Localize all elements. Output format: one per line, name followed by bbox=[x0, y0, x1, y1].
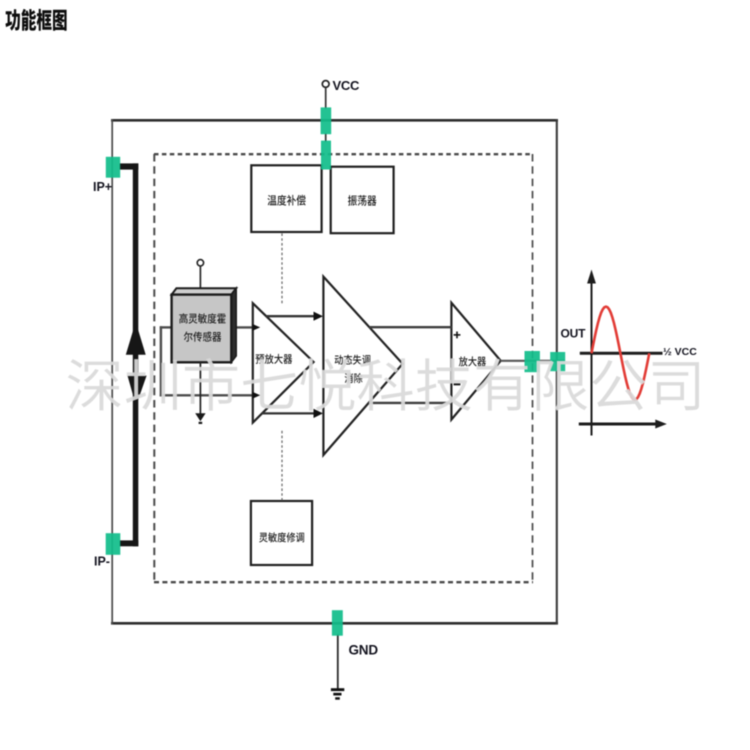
wire GND vertical bbox=[337, 634, 339, 689]
pin marker IP- bbox=[106, 533, 121, 555]
label: hall sensor line 2 bbox=[184, 332, 222, 342]
svg-text:½ VCC: ½ VCC bbox=[663, 346, 697, 358]
current direction arrow down bbox=[128, 376, 147, 406]
pin marker VCC lower bbox=[321, 141, 331, 170]
wire offset-cancel to amplifier plus bbox=[369, 326, 452, 328]
svg-text:GND: GND bbox=[349, 643, 379, 658]
current direction arrow up bbox=[126, 322, 146, 355]
block: temperature compensation bbox=[251, 165, 321, 232]
label: oscillator bbox=[348, 195, 377, 206]
wire hall to pre-amp lower, arrowhead bbox=[252, 392, 260, 399]
op-amp A2: dynamic offset cancellation triangle bbox=[323, 277, 402, 455]
thick current path top segment from IP+ bbox=[120, 163, 139, 169]
wire hall bottom stub bbox=[199, 362, 201, 414]
svg-text:VCC: VCC bbox=[333, 78, 360, 93]
wire VCC terminal to pin marker bbox=[325, 88, 327, 109]
pin marker GND bbox=[332, 610, 343, 636]
label: pre-amplifier bbox=[256, 354, 293, 364]
label: temperature compensation bbox=[268, 195, 306, 206]
dashed trim line from temperature compensation bbox=[281, 233, 283, 305]
dashed chip-core boundary left edge bbox=[153, 154, 155, 582]
label: hall sensor line 1 bbox=[179, 313, 225, 323]
waveform vertical axis with arrow bbox=[591, 281, 593, 436]
wire hall bias left vertical bbox=[160, 326, 162, 396]
hall sensor top terminal circle bbox=[197, 260, 203, 266]
thick current path vertical conductor bbox=[133, 163, 139, 546]
wire pre-amp to offset-cancel upper bbox=[266, 315, 315, 317]
ground symbol GND bbox=[331, 688, 344, 700]
pin marker OUT inner bbox=[525, 351, 540, 372]
pin marker VCC upper bbox=[106, 107, 566, 635]
wire offset-cancel to amplifier minus bbox=[368, 402, 452, 404]
waveform time axis with arrow bbox=[579, 423, 658, 426]
label: amplifier bbox=[459, 356, 486, 366]
IC outer boundary top edge bbox=[111, 119, 558, 122]
hall sensor box right face bbox=[231, 288, 236, 362]
dashed chip-core boundary bottom edge bbox=[154, 581, 533, 583]
label: sensitivity trim bbox=[259, 532, 304, 542]
wire hall upper output to pre-amp bbox=[231, 326, 253, 328]
dashed trim line from sensitivity trim bbox=[281, 431, 283, 501]
arrowhead into offset-cancel lower bbox=[314, 409, 324, 418]
arrowhead into offset-cancel upper bbox=[314, 312, 324, 321]
dashed chip-core boundary right edge bbox=[532, 154, 534, 582]
IC outer boundary right edge bbox=[556, 119, 558, 625]
svg-text:IP-: IP- bbox=[94, 555, 110, 569]
wire amplifier output to OUT pin bbox=[500, 360, 565, 362]
op-amp A3 minus input marker bbox=[454, 383, 461, 385]
IC outer boundary bottom edge bbox=[111, 622, 558, 625]
wire pre-amp to offset-cancel lower bbox=[262, 412, 315, 414]
wire hall terminal bbox=[199, 266, 201, 292]
IC outer boundary left edge bbox=[111, 119, 113, 625]
svg-text:IP+: IP+ bbox=[93, 180, 112, 194]
ground arrow under hall sensor bbox=[195, 413, 205, 421]
pin marker OUT outer bbox=[550, 352, 565, 371]
title: functional block diagram bbox=[6, 9, 67, 31]
hall sensor U1: high-sensitivity hall sensor box bbox=[172, 295, 232, 363]
block: oscillator bbox=[331, 167, 394, 234]
wire hall to pre-amp upper, arrowhead bbox=[252, 324, 260, 331]
svg-text:OUT: OUT bbox=[561, 327, 587, 341]
wire hall lower output to pre-amp bbox=[160, 394, 252, 396]
op-amp A3: output amplifier triangle bbox=[451, 303, 500, 420]
dashed chip-core boundary top edge bbox=[154, 153, 533, 155]
red sine output waveform bbox=[592, 307, 650, 400]
wire hall upper left stub bbox=[160, 326, 173, 328]
hall sensor box top face bbox=[172, 288, 237, 294]
block: sensitivity trim bbox=[251, 501, 312, 565]
thick current path bottom segment to IP- bbox=[120, 540, 139, 546]
VCC terminal circle bbox=[322, 81, 329, 88]
watermark company name bbox=[68, 358, 699, 411]
waveform half-VCC level line bbox=[580, 352, 663, 355]
pin marker IP+ bbox=[106, 157, 120, 178]
label: dynamic offset line 2 bbox=[345, 373, 363, 383]
op-amp A1: pre-amplifier triangle bbox=[253, 303, 314, 422]
op-amp A3 plus input marker bbox=[454, 332, 461, 339]
wire VCC between pin markers bbox=[325, 133, 327, 142]
label: dynamic offset line 1 bbox=[335, 355, 371, 365]
